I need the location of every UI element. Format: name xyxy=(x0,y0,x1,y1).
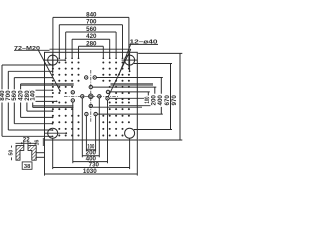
top dim 420 xyxy=(72,38,110,40)
svg-text:670: 670 xyxy=(164,95,171,106)
svg-text:140: 140 xyxy=(30,90,37,101)
bottom chain extension lines xyxy=(44,140,46,176)
svg-text:16: 16 xyxy=(35,140,41,146)
left dim 140 xyxy=(32,97,34,108)
vertical centerline xyxy=(90,70,92,123)
tie-bar hole top-right xyxy=(125,55,135,65)
T-slot section left block xyxy=(16,146,24,161)
top dim 280 xyxy=(79,45,104,47)
svg-text:420: 420 xyxy=(18,90,25,101)
leader 72-M20 xyxy=(39,51,61,91)
top dim 560 xyxy=(66,31,116,33)
hole o40 #8 xyxy=(94,112,97,115)
hole o40 #3 xyxy=(89,85,92,88)
left dim 840 xyxy=(1,65,3,136)
leader 12-o40 xyxy=(119,44,131,74)
double reference lines right xyxy=(93,106,143,108)
double reference lines left xyxy=(33,105,74,107)
hole o40 #12 xyxy=(106,97,109,100)
hole o40 #5 xyxy=(98,95,101,98)
left dim 420 xyxy=(20,84,22,118)
top dim 840 xyxy=(53,16,129,18)
svg-text:38: 38 xyxy=(24,164,31,170)
svg-text:400: 400 xyxy=(157,95,164,106)
center locating hole xyxy=(89,94,94,99)
svg-text:560: 560 xyxy=(86,26,97,33)
aux double line xyxy=(111,83,154,85)
right dim 970 xyxy=(179,53,181,140)
hole o40 #4 xyxy=(81,95,84,98)
left dim 560 xyxy=(13,78,15,124)
right dim 100 xyxy=(147,92,149,98)
bottom dim 100 xyxy=(86,149,95,151)
hole o40 #7 xyxy=(85,112,88,115)
svg-text:1030: 1030 xyxy=(83,168,97,175)
left dim 280 xyxy=(26,90,28,111)
T-slot dim 50 xyxy=(11,146,13,161)
hole o40 #9 xyxy=(71,91,74,94)
bottom dim 730 xyxy=(53,167,130,169)
T-slot dim 38 xyxy=(22,162,32,169)
right chain labels xyxy=(144,96,150,105)
bottom dim 1030 xyxy=(45,173,138,175)
right dim 200 xyxy=(154,87,156,107)
svg-text:72–M20: 72–M20 xyxy=(14,46,40,52)
tie-bar hole bottom-left xyxy=(48,128,58,138)
horizontal centerline xyxy=(64,95,119,97)
svg-text:280: 280 xyxy=(86,40,97,47)
top dim 700 xyxy=(59,24,122,26)
T-slot section right block xyxy=(28,146,36,161)
tie-bar hole top-left xyxy=(48,55,58,65)
right dim 400 xyxy=(160,78,162,115)
left dim 700 xyxy=(7,71,9,130)
svg-text:420: 420 xyxy=(86,33,97,40)
hole o40 #10 xyxy=(71,99,74,102)
hole o40 #11 xyxy=(106,90,109,93)
hole o40 #2 xyxy=(93,76,96,79)
bottom dim 200 xyxy=(82,155,99,157)
svg-text:700: 700 xyxy=(86,19,97,26)
hole o40 #6 xyxy=(89,104,92,107)
leader to center circle c12 xyxy=(108,49,131,97)
svg-text:840: 840 xyxy=(86,11,97,18)
platen outline xyxy=(45,52,138,140)
hole o40 #1 xyxy=(85,76,88,79)
M20 hole grid xyxy=(52,68,54,70)
svg-text:970: 970 xyxy=(171,95,178,106)
svg-text:50: 50 xyxy=(9,150,15,156)
tie-bar hole bottom-right xyxy=(125,128,135,138)
bottom dim 400 xyxy=(73,161,108,163)
left chain labels xyxy=(0,89,5,102)
right chain extension lines xyxy=(138,52,182,54)
right dim 670 xyxy=(170,64,172,130)
projection lines to platen xyxy=(36,152,45,154)
